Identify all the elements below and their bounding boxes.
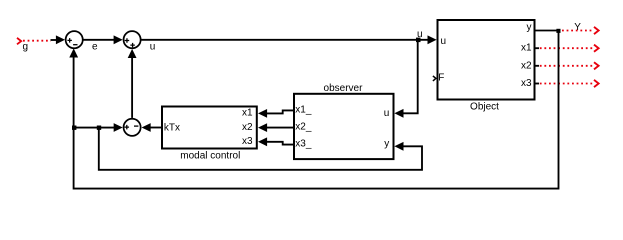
svg-text:u: u bbox=[150, 42, 156, 53]
red arrowhead x1 bbox=[594, 45, 599, 52]
svg-text:x3: x3 bbox=[242, 136, 253, 147]
wire S3 to S2 bbox=[131, 57, 133, 118]
wire u: S2 to Object bbox=[142, 39, 430, 41]
svg-text:x2: x2 bbox=[242, 122, 253, 133]
red arrowhead Y bbox=[594, 27, 599, 34]
wire e: S1 to S2 bbox=[83, 39, 115, 41]
wire y output (black) bbox=[535, 30, 558, 32]
block observer bbox=[294, 94, 394, 159]
wire x3_ observer to modal bbox=[265, 142, 294, 145]
svg-text:x1: x1 bbox=[521, 43, 532, 54]
svg-text:x3: x3 bbox=[521, 78, 532, 89]
svg-text:u: u bbox=[384, 108, 390, 119]
sum junction S3 bbox=[124, 119, 141, 136]
svg-text:x2_: x2_ bbox=[295, 122, 312, 133]
wire y to observer y input bbox=[99, 129, 422, 170]
block Object bbox=[438, 20, 535, 100]
red arrowhead x3 bbox=[594, 80, 599, 87]
red dotted wire x1 out bbox=[535, 47, 539, 49]
svg-text:observer: observer bbox=[324, 83, 364, 94]
junction dot on u wire bbox=[416, 38, 421, 43]
sum junction S2 bbox=[124, 31, 141, 48]
svg-text:x1: x1 bbox=[242, 108, 253, 119]
unconnected port F chevron bbox=[433, 76, 436, 81]
wire x2_ observer to modal bbox=[265, 127, 294, 129]
svg-text:u: u bbox=[417, 29, 423, 40]
red dotted wire x3 out bbox=[535, 83, 539, 85]
red dotted wire x2 out bbox=[535, 65, 539, 67]
wire kTx output to S3 bbox=[150, 127, 162, 129]
junction dot on y output bbox=[556, 29, 560, 33]
svg-text:F: F bbox=[438, 73, 444, 84]
svg-text:y: y bbox=[527, 22, 532, 33]
wire y feedback to S3 bbox=[74, 127, 116, 129]
wire g to sum S1 bbox=[51, 39, 59, 41]
svg-text:Object: Object bbox=[470, 102, 499, 113]
wire x1_ observer to modal bbox=[265, 110, 294, 113]
wire u to observer input bbox=[401, 40, 418, 113]
red dotted wire from g marker bbox=[23, 40, 51, 42]
svg-text:u: u bbox=[441, 36, 447, 47]
sum junction S1 bbox=[66, 31, 83, 48]
svg-text:y: y bbox=[384, 139, 389, 150]
svg-text:e: e bbox=[92, 42, 98, 53]
red arrowhead x2 bbox=[594, 62, 599, 69]
red dotted wire Y out bbox=[562, 30, 594, 32]
svg-text:x3_: x3_ bbox=[295, 138, 312, 149]
svg-text:kTx: kTx bbox=[164, 123, 180, 134]
svg-text:modal control: modal control bbox=[180, 150, 240, 161]
junction dot y-to-observer branch bbox=[97, 126, 101, 130]
block modal control bbox=[162, 107, 257, 149]
svg-text:x2: x2 bbox=[521, 60, 532, 71]
svg-text:g: g bbox=[23, 42, 29, 53]
svg-text:x1_: x1_ bbox=[295, 105, 312, 116]
junction dot feedback at sum column bbox=[72, 126, 76, 130]
input port marker g (red chevron) bbox=[17, 38, 21, 44]
feedback wire y to S1 (outer loop) bbox=[74, 32, 559, 189]
svg-text:Y: Y bbox=[574, 22, 581, 33]
